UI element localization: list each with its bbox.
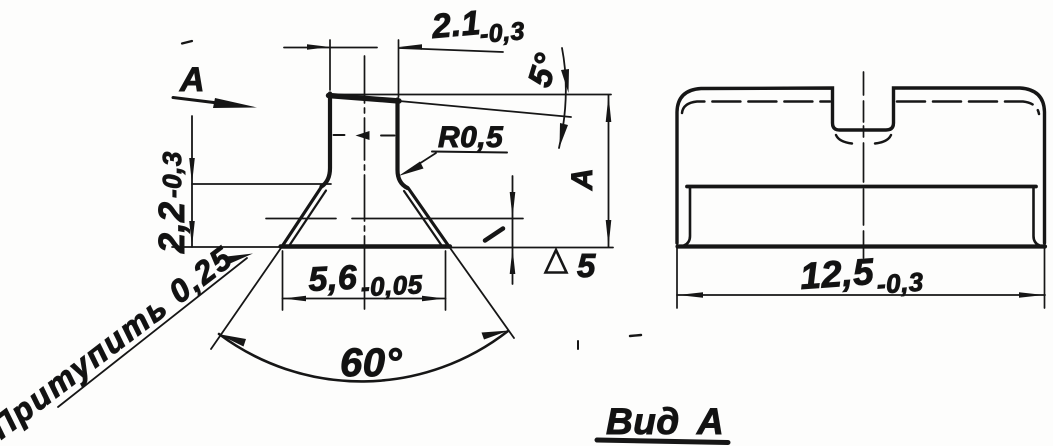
view label underline — [597, 440, 728, 443]
dimension 2,2-0,3: lower arrow (down to y=247) — [189, 221, 195, 247]
dimension 5,6-0,05: label — [307, 255, 423, 305]
svg-text:5: 5 — [577, 247, 596, 284]
svg-text:R0,5: R0,5 — [438, 121, 504, 154]
left view: left dovetail slope inner line — [289, 191, 326, 247]
leader note text — [0, 239, 240, 446]
stray speck dash — [630, 335, 641, 336]
R0,5 underline — [432, 152, 507, 153]
dimension 2,2-0,3: reference line at flange top — [192, 183, 331, 185]
right view: bottom edge — [678, 244, 1046, 248]
dimension 2,2-0,3: upper arrow (down to y=184) — [189, 158, 195, 184]
left view: stem centerline arrow tick — [356, 131, 370, 140]
svg-text:2.1: 2.1 — [429, 4, 482, 46]
dimension 2.1-0.3: extension lines — [330, 40, 399, 97]
dimension 5,6-0,05: right arrow — [422, 296, 445, 302]
60 deg: right arrow — [482, 331, 510, 340]
left view: left stem edge with fillet — [322, 94, 331, 187]
view arrow A: arrow head — [213, 98, 257, 108]
dimension A: label (rotated) — [566, 168, 599, 191]
svg-text:60°: 60° — [340, 341, 402, 385]
dimension 2,2-0,3: bottom reference stub — [172, 246, 281, 248]
dimension 2.1-0.3: right arrow — [399, 44, 422, 50]
dimension 1: upper arrow (down to 218) — [510, 192, 516, 218]
5 deg reference horizontal line — [331, 94, 611, 96]
R0,5 leader arrow — [399, 162, 424, 177]
leader note arrow — [227, 254, 254, 264]
dimension 12,5-0,3: label — [799, 248, 925, 305]
svg-text:2,2: 2,2 — [151, 201, 192, 254]
dimension 2,2-0,3: vertical dimension line — [191, 116, 193, 247]
dimension 12,5-0,3: left arrow — [678, 292, 703, 298]
dimension 12,5-0,3: dimension line — [677, 294, 1045, 296]
dimension 12,5-0,3: extension lines — [677, 248, 1045, 308]
right view: middle flange line — [687, 185, 1036, 189]
5 deg label — [520, 49, 565, 91]
dimension 1: lower arrow (up to 248) — [510, 248, 516, 274]
roughness triangle — [546, 250, 567, 273]
right view: notch dashed hidden line — [836, 135, 891, 144]
5 deg angle arc — [559, 48, 566, 148]
left view: bottom edge — [281, 244, 451, 248]
dimension A: vertical dimension line — [608, 95, 610, 247]
left view: part outline top edge (slanted 5 deg) — [329, 96, 400, 102]
right view: top dashed hidden line left — [682, 102, 830, 114]
svg-text:12,5: 12,5 — [799, 251, 877, 297]
dimension 2.1-0.3: dimension line — [284, 48, 503, 53]
svg-text:Вид: Вид — [606, 401, 680, 442]
right view: lower left inner edge — [684, 188, 690, 246]
svg-text:A: A — [179, 61, 205, 99]
left view: horizontal centerline at chamfer level — [266, 218, 523, 220]
bottom reference line extension to roughness — [449, 247, 613, 249]
svg-text:-0,05: -0,05 — [360, 269, 423, 302]
60 deg: left slope extension line — [211, 247, 282, 350]
right view: lower right inner edge — [1034, 188, 1040, 246]
dimension 2.1-0.3: left arrow — [307, 44, 330, 50]
dimension A: lower arrow — [606, 220, 612, 247]
view arrow A: arrow line — [173, 98, 230, 105]
svg-text:-0,3: -0,3 — [157, 151, 187, 198]
stray speck top left — [182, 41, 192, 44]
5 deg arc lower arrow — [560, 123, 569, 147]
5 deg arc upper arrow — [561, 69, 569, 93]
dimension 2,2-0,3: label (rotated) — [151, 151, 192, 254]
left view: left dovetail slope outer line — [282, 188, 321, 247]
60 deg: right slope extension line — [449, 247, 514, 339]
leader note: Притупить 0,25 line — [58, 258, 247, 407]
left view: right dovetail slope inner line — [404, 191, 442, 246]
left view: right stem edge with fillet — [398, 100, 408, 189]
dimension 1: vertical line — [512, 176, 514, 284]
svg-text:A: A — [566, 168, 599, 191]
R0,5 leader line — [408, 153, 436, 171]
right view: outer outline — [677, 88, 1045, 243]
dimension 2.1-0.3: label — [429, 0, 526, 53]
svg-text:-0,3: -0,3 — [479, 17, 526, 49]
stray speck near label left — [577, 341, 579, 349]
left view: stem horizontal centerline with tick — [334, 134, 395, 137]
svg-text:-0,3: -0,3 — [876, 266, 925, 299]
dimension 1: label stroke — [485, 229, 503, 241]
left view: right dovetail slope outer line — [409, 189, 450, 247]
left view: vertical centerline — [364, 56, 366, 309]
5 deg slant extension line — [399, 101, 571, 117]
right view: top dashed hidden line right — [897, 102, 1039, 115]
60 deg: angle arc — [219, 331, 508, 381]
dimension 12,5-0,3: right arrow — [1019, 292, 1044, 298]
svg-text:А: А — [696, 401, 724, 442]
dimension 5,6-0,05: dimension line — [283, 298, 446, 300]
60 deg: left arrow — [218, 334, 246, 347]
svg-text:Притупить 0,25: Притупить 0,25 — [0, 239, 240, 446]
right view: vertical centerline — [863, 72, 865, 258]
dimension 5,6-0,05: left arrow — [283, 296, 306, 302]
dimension A: upper arrow — [606, 95, 612, 122]
svg-text:5°: 5° — [520, 49, 565, 91]
dimension 5,6-0,05: extension lines — [283, 251, 446, 310]
svg-text:5,6: 5,6 — [307, 258, 358, 299]
